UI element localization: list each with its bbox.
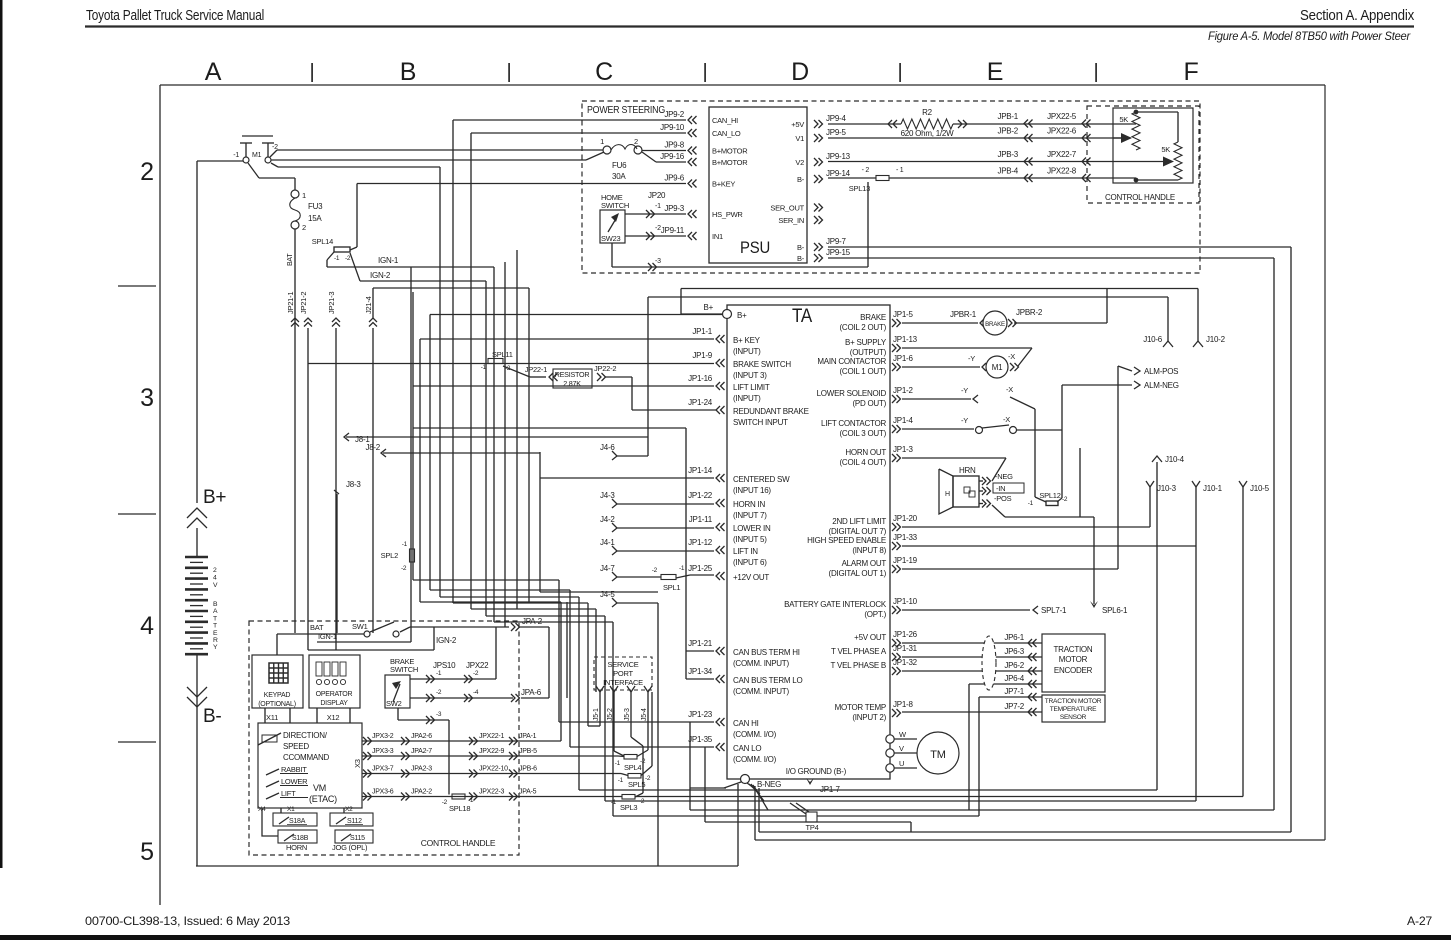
svg-text:E: E [987,58,1003,86]
svg-text:JP1-23: JP1-23 [688,710,713,719]
svg-text:JPX22-9: JPX22-9 [479,748,504,755]
svg-text:MAIN CONTACTOR: MAIN CONTACTOR [817,357,886,366]
svg-text:E: E [213,630,218,637]
svg-text:(COIL 2 OUT): (COIL 2 OUT) [840,323,887,332]
svg-text:JPS10: JPS10 [433,661,456,670]
svg-text:SERVICE: SERVICE [607,660,638,669]
svg-text:W: W [899,730,907,739]
svg-text:VM: VM [313,783,326,793]
svg-text:JP9-11: JP9-11 [661,226,685,235]
svg-text:JP1-12: JP1-12 [688,538,713,547]
svg-text:JP21-2: JP21-2 [299,292,308,314]
svg-text:JP22-2: JP22-2 [594,364,616,373]
svg-text:1: 1 [600,137,604,146]
svg-text:SPL18: SPL18 [449,804,470,813]
svg-text:JPX22: JPX22 [466,661,489,670]
svg-text:J5-2: J5-2 [607,708,614,721]
svg-text:-1: -1 [611,799,617,806]
svg-text:CONTROL HANDLE: CONTROL HANDLE [1105,193,1175,202]
svg-text:(INPUT 5): (INPUT 5) [733,535,767,544]
svg-text:(INPUT 16): (INPUT 16) [733,486,771,495]
svg-text:V: V [213,582,218,589]
svg-text:JPX22-8: JPX22-8 [1047,167,1077,176]
svg-text:S112: S112 [347,818,362,825]
svg-text:B+: B+ [737,311,747,320]
svg-text:5K: 5K [1119,115,1128,124]
svg-text:JP1-11: JP1-11 [689,515,713,524]
svg-text:JP9-10: JP9-10 [660,123,685,132]
svg-text:00700-CL398-13, Issued: 6 May: 00700-CL398-13, Issued: 6 May 2013 [85,914,290,928]
svg-text:T VEL PHASE A: T VEL PHASE A [831,647,887,656]
svg-text:SPL13: SPL13 [849,184,870,193]
svg-text:B+: B+ [703,303,713,312]
svg-text:-X: -X [1003,415,1010,424]
svg-text:JPA2-2: JPA2-2 [411,789,432,796]
svg-text:SPL3: SPL3 [620,803,637,812]
svg-text:JP21-3: JP21-3 [327,292,336,314]
svg-text:MOTOR: MOTOR [1059,655,1088,664]
svg-text:J4-6: J4-6 [600,443,615,452]
svg-text:(INPUT 6): (INPUT 6) [733,558,767,567]
svg-text:U: U [899,759,904,768]
svg-text:JPA2-6: JPA2-6 [411,733,432,740]
svg-text:J21-4: J21-4 [364,296,373,314]
svg-text:SPL12: SPL12 [1039,491,1060,500]
svg-text:J4-1: J4-1 [600,538,615,547]
svg-text:JP1-24: JP1-24 [688,398,713,407]
svg-text:SWITCH INPUT: SWITCH INPUT [733,418,788,427]
svg-text:4: 4 [213,575,217,582]
svg-text:JP1-31: JP1-31 [893,644,918,653]
svg-text:B-: B- [203,706,222,727]
svg-text:RESISTOR: RESISTOR [555,370,590,379]
svg-text:PSU: PSU [740,239,770,257]
svg-text:(OPTIONAL): (OPTIONAL) [258,701,296,708]
svg-text:|: | [1094,61,1099,83]
svg-text:BRAKE: BRAKE [985,321,1005,328]
svg-text:B-: B- [797,243,805,252]
svg-text:JPB-2: JPB-2 [997,127,1018,136]
svg-text:J10-1: J10-1 [1203,484,1223,493]
svg-text:(DIGITAL OUT 1): (DIGITAL OUT 1) [829,569,887,578]
svg-text:IGN-2: IGN-2 [370,271,391,280]
svg-text:POWER STEERING: POWER STEERING [587,104,665,116]
svg-text:X12: X12 [327,713,340,722]
svg-text:(INPUT 7): (INPUT 7) [733,511,767,520]
svg-text:2ND LIFT LIMIT: 2ND LIFT LIMIT [832,517,886,526]
svg-text:SWITCH: SWITCH [601,201,629,210]
svg-text:-Y: -Y [961,386,968,395]
svg-text:JPX22-7: JPX22-7 [1047,150,1077,159]
svg-text:T VEL PHASE B: T VEL PHASE B [831,661,886,670]
svg-text:-1: -1 [402,541,408,548]
svg-text:V1: V1 [795,134,804,143]
svg-text:CAN BUS TERM HI: CAN BUS TERM HI [733,648,800,657]
svg-text:(COMM. I/O): (COMM. I/O) [733,755,777,764]
svg-text:B: B [213,601,218,608]
svg-text:SW23: SW23 [601,234,621,243]
svg-text:JPX3-6: JPX3-6 [372,789,394,796]
svg-text:JPB-5: JPB-5 [519,748,537,755]
svg-text:ENCODER: ENCODER [1054,666,1093,675]
svg-text:BRAKE: BRAKE [860,313,886,322]
svg-text:LOWER IN: LOWER IN [733,524,771,533]
svg-text:HS_PWR: HS_PWR [712,210,743,219]
svg-text:-2: -2 [473,670,479,677]
svg-text:FU3: FU3 [308,202,323,211]
svg-text:JPB-3: JPB-3 [997,150,1018,159]
svg-text:JP1-22: JP1-22 [688,491,713,500]
svg-text:|: | [898,61,903,83]
svg-text:LIFT CONTACTOR: LIFT CONTACTOR [821,419,886,428]
svg-text:JP9-16: JP9-16 [660,152,685,161]
svg-text:-2: -2 [1062,496,1068,503]
svg-text:INTERFACE: INTERFACE [603,678,643,687]
svg-text:B+MOTOR: B+MOTOR [712,147,748,156]
svg-text:IGN-1: IGN-1 [378,256,399,265]
svg-text:-3: -3 [436,711,442,718]
svg-text:- 2: - 2 [862,167,870,174]
svg-text:JP1-20: JP1-20 [893,514,918,523]
svg-text:JPX22-5: JPX22-5 [1047,112,1077,121]
svg-text:CAN_HI: CAN_HI [712,116,738,125]
svg-text:(OPT.): (OPT.) [864,610,886,619]
svg-text:SPL11: SPL11 [492,350,513,359]
svg-text:HIGH SPEED ENABLE: HIGH SPEED ENABLE [807,536,886,545]
svg-text:T: T [213,615,217,622]
svg-text:IN1: IN1 [712,232,723,241]
svg-text:BATTERY GATE INTERLOCK: BATTERY GATE INTERLOCK [784,600,887,609]
svg-text:ALARM OUT: ALARM OUT [842,559,887,568]
svg-text:(COMM. I/O): (COMM. I/O) [733,730,777,739]
svg-text:CCOMMAND: CCOMMAND [283,753,329,762]
svg-text:SER_OUT: SER_OUT [770,204,804,213]
svg-text:JP6-3: JP6-3 [1004,647,1024,656]
svg-text:(INPUT): (INPUT) [733,394,761,403]
svg-text:JP20: JP20 [648,191,666,200]
svg-text:LIFT IN: LIFT IN [733,547,758,556]
svg-text:JP9-14: JP9-14 [826,169,851,178]
svg-text:CAN LO: CAN LO [733,744,761,753]
svg-text:JP1-13: JP1-13 [893,335,918,344]
svg-text:B-NEG: B-NEG [757,780,781,789]
svg-text:JPX22-10: JPX22-10 [479,766,508,773]
svg-text:OPERATOR: OPERATOR [316,691,353,698]
svg-text:JP9-8: JP9-8 [664,141,684,150]
svg-text:-1: -1 [468,797,474,804]
svg-text:JP7-1: JP7-1 [1004,687,1024,696]
svg-text:PORT: PORT [613,669,633,678]
svg-text:KEYPAD: KEYPAD [264,692,291,699]
svg-text:(COMM. INPUT): (COMM. INPUT) [733,687,789,696]
svg-text:JP7-2: JP7-2 [1004,702,1024,711]
svg-text:-Y: -Y [961,416,968,425]
svg-text:B-: B- [797,175,805,184]
svg-text:JPBR-2: JPBR-2 [1016,308,1043,317]
svg-text:JP9-4: JP9-4 [826,114,846,123]
svg-text:CAN BUS TERM LO: CAN BUS TERM LO [733,676,802,685]
svg-text:BRAKE SWITCH: BRAKE SWITCH [733,360,791,369]
svg-text:X1: X1 [287,806,295,813]
svg-text:V2: V2 [795,158,804,167]
svg-text:B+MOTOR: B+MOTOR [712,158,748,167]
svg-text:JP1-21: JP1-21 [688,639,713,648]
svg-text:Y: Y [213,644,218,651]
svg-text:(COIL 3 OUT): (COIL 3 OUT) [840,429,887,438]
svg-text:TP4: TP4 [805,823,818,832]
svg-text:+5V: +5V [791,120,804,129]
svg-text:IGN-2: IGN-2 [436,636,457,645]
svg-text:JPX22-3: JPX22-3 [479,789,504,796]
svg-text:M1: M1 [252,152,262,159]
svg-text:-1: -1 [679,565,685,572]
svg-text:5K: 5K [1161,145,1170,154]
svg-text:J5-4: J5-4 [641,708,648,721]
svg-text:JP1-34: JP1-34 [688,667,713,676]
svg-text:JP9-2: JP9-2 [664,110,684,119]
svg-text:JP1-1: JP1-1 [692,327,712,336]
svg-text:SER_IN: SER_IN [778,216,804,225]
svg-text:JPA2-3: JPA2-3 [411,766,432,773]
svg-text:JOG (OPL): JOG (OPL) [332,843,368,852]
svg-text:JP9-15: JP9-15 [826,248,851,257]
svg-text:JP1-19: JP1-19 [893,556,918,565]
svg-text:JPB-1: JPB-1 [997,112,1018,121]
svg-text:B+: B+ [203,487,226,508]
svg-text:J10-3: J10-3 [1157,484,1177,493]
svg-text:DISPLAY: DISPLAY [320,700,348,707]
svg-text:JP6-4: JP6-4 [1004,674,1024,683]
svg-text:JP21-1: JP21-1 [286,292,295,314]
svg-text:D: D [791,58,809,86]
svg-text:-2: -2 [436,689,442,696]
svg-text:-NEG: -NEG [995,472,1013,481]
svg-text:-Y: -Y [968,354,975,363]
svg-text:A: A [213,608,218,615]
svg-text:-2: -2 [401,565,407,572]
svg-text:JP1-33: JP1-33 [893,533,918,542]
svg-text:DIRECTION/: DIRECTION/ [283,731,328,740]
svg-text:-3: -3 [655,258,661,265]
svg-text:J4-3: J4-3 [600,491,615,500]
svg-text:TRACTION: TRACTION [1054,645,1093,654]
svg-text:X3: X3 [353,759,362,768]
svg-text:JP1-14: JP1-14 [688,466,713,475]
svg-text:LIFT LIMIT: LIFT LIMIT [733,383,770,392]
svg-text:R: R [213,637,218,644]
svg-text:JP1-6: JP1-6 [893,354,913,363]
svg-text:-1: -1 [1028,500,1034,507]
svg-text:-2: -2 [442,799,448,806]
svg-text:CENTERED SW: CENTERED SW [733,475,790,484]
svg-text:4: 4 [140,612,154,640]
svg-text:(DIGITAL OUT 7): (DIGITAL OUT 7) [829,527,887,536]
svg-text:I/O GROUND (B-): I/O GROUND (B-) [786,767,847,776]
svg-text:JPX22-6: JPX22-6 [1047,127,1077,136]
svg-text:RABBIT: RABBIT [281,765,307,774]
svg-text:(INPUT 8): (INPUT 8) [852,546,886,555]
svg-text:-IN: -IN [996,484,1005,493]
svg-text:JP9-3: JP9-3 [664,204,684,213]
svg-text:J5-3: J5-3 [624,708,631,721]
svg-text:5: 5 [140,838,154,866]
svg-text:LOWER: LOWER [281,777,308,786]
svg-text:JPA-6: JPA-6 [521,688,542,697]
svg-text:B+KEY: B+KEY [712,180,735,189]
svg-text:B+ KEY: B+ KEY [733,336,761,345]
svg-text:JP22-1: JP22-1 [525,365,547,374]
svg-text:JPBR-1: JPBR-1 [950,310,977,319]
svg-text:JP1-10: JP1-10 [893,597,918,606]
svg-text:SPEED: SPEED [283,742,309,751]
svg-text:JPA-2: JPA-2 [522,617,543,626]
svg-text:SPL7-1: SPL7-1 [1041,606,1067,615]
svg-text:- 1: - 1 [896,167,904,174]
svg-text:SPL6-1: SPL6-1 [1102,606,1128,615]
svg-text:-X: -X [1006,385,1013,394]
svg-text:-POS: -POS [994,494,1012,503]
svg-text:(ETAC): (ETAC) [309,794,337,804]
svg-text:2: 2 [213,567,217,574]
svg-text:SPL5: SPL5 [628,780,645,789]
svg-text:B-: B- [797,254,805,263]
svg-text:SW1: SW1 [352,622,368,631]
svg-text:3: 3 [140,384,154,412]
svg-text:JP6-1: JP6-1 [1004,633,1024,642]
svg-text:LIFT: LIFT [281,789,296,798]
svg-text:HRN: HRN [959,466,976,475]
svg-text:-1: -1 [655,203,661,210]
svg-text:JP1-3: JP1-3 [893,445,913,454]
svg-text:CAN HI: CAN HI [733,719,759,728]
svg-text:-1: -1 [618,777,624,784]
svg-text:|: | [310,61,315,83]
svg-text:JP9-5: JP9-5 [826,128,846,137]
svg-text:ALM-POS: ALM-POS [1144,367,1178,376]
svg-text:JPX22-1: JPX22-1 [479,733,504,740]
svg-text:(INPUT 2): (INPUT 2) [852,713,886,722]
svg-text:J8-2: J8-2 [365,443,380,452]
svg-text:B+ SUPPLY: B+ SUPPLY [845,338,887,347]
svg-text:V: V [899,744,904,753]
svg-text:JP9-13: JP9-13 [826,152,851,161]
svg-text:JP1-4: JP1-4 [893,416,913,425]
svg-text:JPB-4: JPB-4 [997,167,1018,176]
svg-text:2: 2 [634,137,638,146]
svg-text:J4-7: J4-7 [600,564,615,573]
svg-text:Toyota Pallet Truck Service Ma: Toyota Pallet Truck Service Manual [86,8,264,24]
svg-text:CONTROL HANDLE: CONTROL HANDLE [421,838,496,848]
svg-text:-2: -2 [645,775,651,782]
svg-text:SPL1: SPL1 [663,583,680,592]
svg-text:JP1-25: JP1-25 [688,564,713,573]
svg-text:A-27: A-27 [1407,914,1432,928]
svg-text:SPL2: SPL2 [381,551,398,560]
svg-text:T: T [213,623,217,630]
svg-text:SPL4: SPL4 [624,763,641,772]
svg-text:MOTOR TEMP: MOTOR TEMP [835,703,886,712]
svg-text:JP1-35: JP1-35 [688,735,713,744]
svg-text:HORN IN: HORN IN [733,500,766,509]
svg-text:ALM-NEG: ALM-NEG [1144,381,1179,390]
svg-text:X11: X11 [266,713,278,722]
svg-text:HORN: HORN [286,843,307,852]
svg-text:JP9-6: JP9-6 [664,174,684,183]
svg-text:|: | [703,61,708,83]
svg-text:TRACTION MOTOR: TRACTION MOTOR [1045,698,1102,705]
svg-text:(COMM. INPUT): (COMM. INPUT) [733,659,789,668]
svg-text:JP9-7: JP9-7 [826,237,846,246]
svg-text:JP1-16: JP1-16 [688,374,713,383]
svg-text:Section A. Appendix: Section A. Appendix [1300,8,1415,24]
svg-text:JP1-9: JP1-9 [692,351,712,360]
svg-text:LOWER SOLENOID: LOWER SOLENOID [817,389,887,398]
svg-text:X2: X2 [345,806,353,813]
svg-text:(PD OUT): (PD OUT) [852,399,886,408]
svg-text:TM: TM [930,749,945,761]
svg-text:S18A: S18A [289,818,306,825]
svg-text:Figure A-5. Model 8TB50 with: Figure A-5. Model 8TB50 with Power Steer [1208,31,1411,43]
svg-text:TA: TA [792,306,813,327]
svg-text:CAN_LO: CAN_LO [712,129,741,138]
svg-text:(COIL 1 OUT): (COIL 1 OUT) [840,367,887,376]
svg-text:1: 1 [302,191,306,200]
svg-text:JP1-32: JP1-32 [893,658,918,667]
svg-text:-1: -1 [436,670,442,677]
svg-text:HORN OUT: HORN OUT [845,448,886,457]
svg-text:-1: -1 [233,152,239,159]
svg-text:J5-1: J5-1 [593,708,600,721]
svg-text:S115: S115 [350,835,365,842]
svg-text:-4: -4 [473,689,479,696]
svg-text:BAT: BAT [287,253,294,266]
svg-text:JPA2-7: JPA2-7 [411,748,432,755]
svg-text:J10-4: J10-4 [1165,455,1185,464]
svg-text:TEMPERATURE: TEMPERATURE [1050,706,1097,713]
svg-text:30A: 30A [612,172,626,181]
svg-text:FU6: FU6 [612,161,627,170]
svg-text:SENSOR: SENSOR [1060,714,1087,721]
svg-text:BAT: BAT [310,623,324,632]
svg-text:-2: -2 [652,567,658,574]
svg-text:S18B: S18B [292,835,309,842]
svg-text:JP1-2: JP1-2 [893,386,913,395]
svg-text:2: 2 [302,223,306,232]
svg-text:R2: R2 [922,108,933,117]
svg-text:+5V OUT: +5V OUT [854,633,886,642]
svg-text:JP1-8: JP1-8 [893,700,913,709]
svg-text:2: 2 [140,158,154,186]
svg-text:IGN-1: IGN-1 [318,632,337,641]
svg-text:+12V OUT: +12V OUT [733,573,769,582]
svg-text:J10-5: J10-5 [1250,484,1270,493]
svg-text:-2: -2 [655,225,661,232]
svg-text:(OUTPUT): (OUTPUT) [850,348,887,357]
svg-text:C: C [595,58,613,86]
svg-text:J10-6: J10-6 [1143,335,1163,344]
svg-text:-1: -1 [334,255,340,262]
svg-text:B: B [400,58,416,86]
svg-text:JP6-2: JP6-2 [1004,661,1024,670]
svg-text:(INPUT): (INPUT) [733,347,761,356]
svg-text:-2: -2 [345,255,351,262]
svg-text:JP1-5: JP1-5 [893,310,913,319]
svg-text:SPL14: SPL14 [312,237,333,246]
svg-text:M1: M1 [992,363,1003,372]
svg-text:JPB-6: JPB-6 [519,766,537,773]
svg-text:-X: -X [1008,352,1015,361]
svg-text:JPX3-2: JPX3-2 [372,733,394,740]
